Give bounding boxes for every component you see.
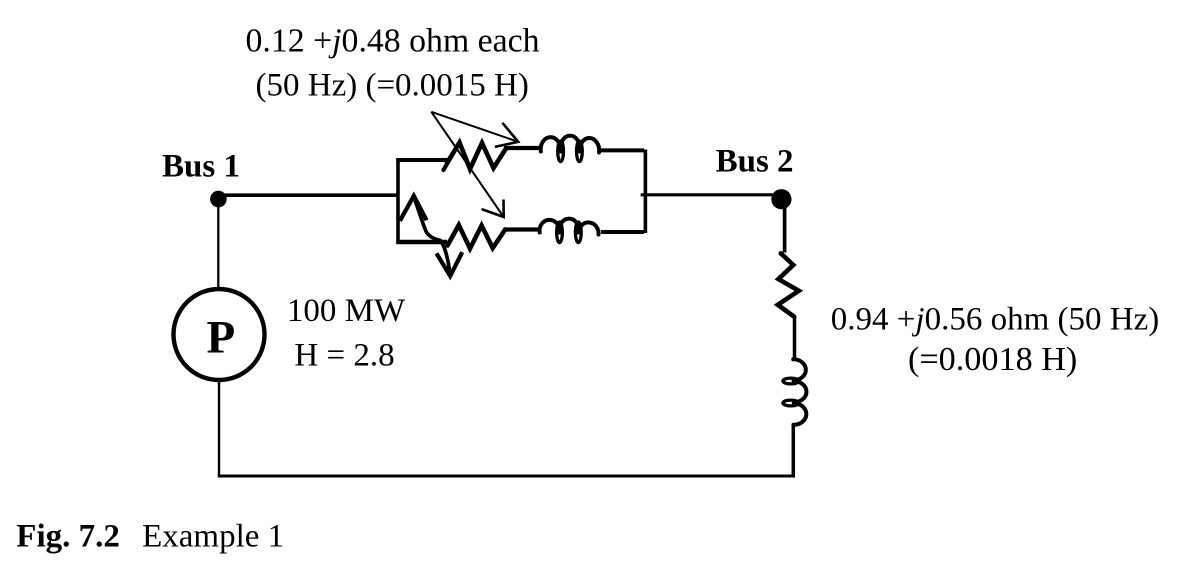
curved annotation arrow across bottom branch: [414, 197, 450, 276]
svg-text:(=0.0018 H): (=0.0018 H): [908, 341, 1077, 378]
svg-text:0.12 +j0.48 ohm each: 0.12 +j0.48 ohm each: [246, 23, 540, 60]
svg-text:H = 2.8: H = 2.8: [294, 337, 394, 373]
arrow annotation from label to R2: [431, 112, 503, 217]
wire Bus1 dot down to generator: [217, 199, 219, 288]
arrow annotation from label to R1: [431, 112, 518, 142]
svg-text:(50 Hz) (=0.0015 H): (50 Hz) (=0.0015 H): [256, 67, 529, 103]
node Bus 2 junction dot: [771, 189, 791, 209]
svg-text:100 MW: 100 MW: [287, 293, 406, 329]
wire right bar to Bus 2: [641, 193, 781, 196]
inductor L1 top branch: [541, 136, 600, 153]
wire right bar of parallel branches: [644, 150, 648, 234]
wire L3 down to return wire: [792, 425, 796, 477]
inductor L2 bottom branch: [540, 219, 599, 235]
resistor R1 extra hand stroke: [444, 151, 455, 170]
svg-text:P: P: [207, 312, 236, 364]
wire generator bottom down to return wire: [218, 382, 220, 477]
resistor R2 bottom branch: [448, 225, 506, 249]
wire Bus2 down to load resistor: [783, 200, 787, 253]
inductor L3 load (vertical): [793, 359, 806, 425]
svg-text:0.94 +j0.56 ohm (50 Hz): 0.94 +j0.56 ohm (50 Hz): [831, 301, 1159, 337]
generator U1 circle: [174, 289, 265, 380]
wire left bar of parallel branches: [396, 159, 400, 244]
svg-text:Bus 2: Bus 2: [716, 143, 794, 179]
wire R3 to L3: [793, 316, 797, 359]
resistor R1 top branch: [447, 143, 506, 170]
curved arrow down head: [437, 252, 463, 276]
wire L1 to right bar: [601, 148, 644, 152]
wire R2 to L2: [504, 227, 542, 231]
wire bottom branch stub from left bar: [396, 240, 447, 244]
curved arrow up head: [400, 196, 427, 221]
node Bus 1 junction dot: [210, 191, 227, 208]
wire L2 to right bar: [601, 230, 644, 234]
wire bottom return: [218, 475, 795, 478]
svg-text:Fig. 7.2 Example 1: Fig. 7.2 Example 1: [16, 519, 284, 555]
wire Bus1 to parallel-branch left bar: [219, 193, 399, 197]
wire top branch stub from left bar: [396, 158, 450, 162]
resistor R3 load (vertical): [778, 253, 799, 316]
wire R1 to L1: [504, 146, 541, 150]
svg-text:Bus 1: Bus 1: [162, 149, 240, 185]
